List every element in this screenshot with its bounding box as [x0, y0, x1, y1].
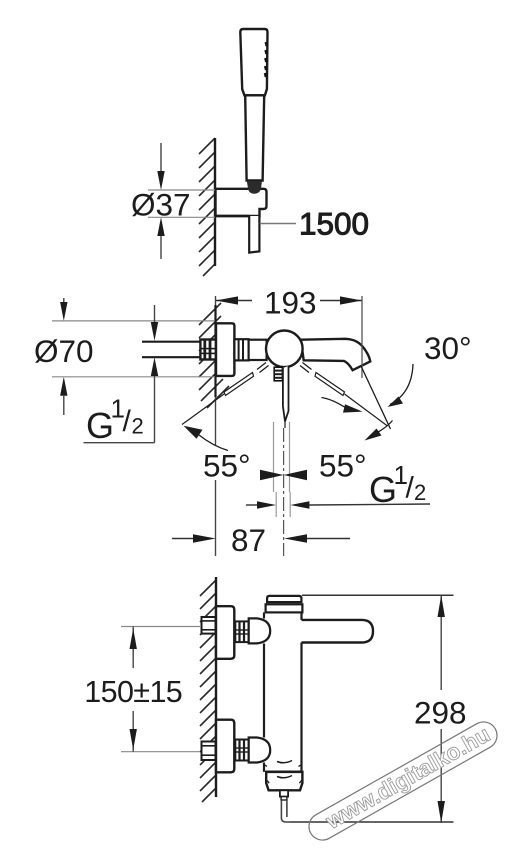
spout — [301, 339, 371, 370]
dimension G1/2 bottom (hose outlet) — [246, 460, 430, 517]
svg-text:30°: 30° — [424, 330, 472, 366]
union nut at wall — [200, 340, 216, 360]
left needle body — [224, 373, 254, 396]
svg-text:2: 2 — [132, 413, 144, 438]
handle centreline + bowtie — [260, 422, 307, 556]
svg-text:55°: 55° — [319, 448, 367, 484]
lower-right arc arrow — [365, 429, 382, 441]
svg-text:87: 87 — [231, 522, 266, 558]
svg-text:Ø37: Ø37 — [131, 187, 191, 223]
spray nozzle marks on head right edge — [265, 42, 267, 77]
wall hatching — [200, 580, 216, 802]
bottom check-valve dome — [249, 738, 271, 763]
handle collar (grooved) — [274, 367, 282, 381]
svg-text:150±15: 150±15 — [84, 675, 182, 709]
hose stub down and corner — [280, 800, 282, 818]
bottom flange — [216, 720, 234, 773]
right dash near ball — [300, 366, 309, 373]
nipple — [280, 790, 288, 796]
diverter block — [266, 772, 302, 791]
svg-text:193: 193 — [264, 285, 317, 321]
dimension 87 — [172, 522, 350, 558]
left arc arrow — [184, 426, 203, 439]
dimension 298 — [290, 595, 467, 823]
watermark www.digitalko.hu — [304, 717, 502, 845]
svg-text:298: 298 — [414, 695, 467, 731]
dimension Ø70 — [34, 298, 214, 415]
svg-text:55°: 55° — [203, 448, 251, 484]
top cap — [267, 596, 301, 602]
shower head — [240, 29, 267, 95]
dimension 193 — [216, 285, 362, 379]
supply stub pipe — [142, 341, 202, 343]
spout axis line — [361, 366, 391, 429]
wall hatching (crosses wall line) — [199, 303, 229, 408]
30° leader — [390, 364, 413, 405]
body left edge — [263, 612, 265, 618]
right needle body — [315, 373, 345, 396]
55° swing indicators — [182, 330, 472, 484]
wall line — [215, 577, 217, 797]
body nut section — [234, 339, 248, 360]
svg-text:/: / — [123, 405, 132, 438]
wall / extension line — [215, 296, 217, 305]
body lower shading arcs — [277, 761, 292, 763]
shower hose — [249, 216, 259, 253]
top S-union stub — [202, 617, 216, 634]
body right edge — [300, 612, 302, 620]
lever (front view pill) — [302, 620, 374, 643]
holder bracket — [216, 189, 267, 216]
dimension 150±15 — [84, 627, 200, 752]
top nut (striped) — [235, 621, 248, 642]
dimension G1/2 top (supply) — [84, 305, 159, 446]
dimension Ø37 — [131, 143, 215, 259]
wall flange (escutcheon) — [216, 323, 234, 376]
lever blade — [283, 366, 289, 422]
bottom S-union stub — [202, 742, 216, 761]
cartridge ball — [266, 331, 303, 368]
wall line — [214, 138, 216, 266]
body to ball — [249, 340, 267, 360]
handle dark tip in bracket — [247, 181, 262, 194]
top flange — [216, 606, 234, 659]
wall hatching — [199, 138, 215, 276]
top check-valve dome — [249, 618, 271, 643]
shower handle — [245, 95, 264, 180]
leader line to 1500 — [260, 223, 296, 225]
bottom nut (striped) — [235, 740, 248, 761]
right arc arrow — [343, 404, 363, 412]
svg-text:Ø70: Ø70 — [34, 333, 94, 369]
left dash near ball — [260, 366, 269, 373]
svg-text:2: 2 — [414, 480, 426, 505]
svg-text:1500: 1500 — [299, 206, 369, 242]
